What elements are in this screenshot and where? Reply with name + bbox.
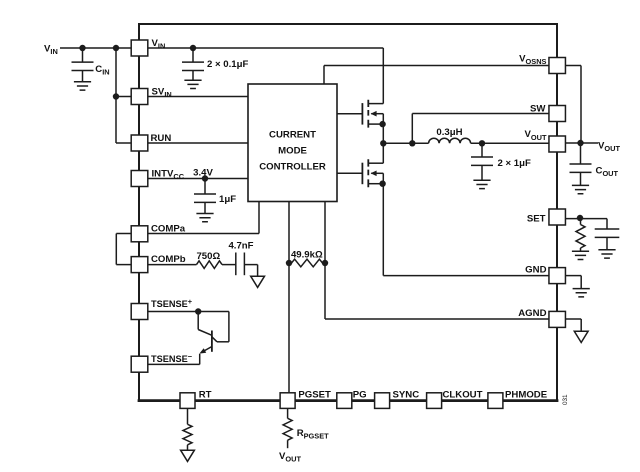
svg-text:RT: RT: [199, 390, 212, 401]
svg-text:TSENSE+: TSENSE+: [151, 297, 193, 309]
svg-text:750Ω: 750Ω: [196, 251, 220, 262]
svg-text:2 × 1μF: 2 × 1μF: [498, 158, 531, 169]
svg-text:COMPa: COMPa: [151, 223, 186, 234]
svg-text:1μF: 1μF: [219, 194, 236, 205]
svg-text:TSENSE−: TSENSE−: [151, 352, 193, 364]
svg-text:PG: PG: [353, 390, 367, 401]
svg-text:SET: SET: [527, 214, 546, 225]
svg-text:MODE: MODE: [278, 145, 307, 156]
svg-text:031: 031: [562, 394, 569, 405]
svg-text:CONTROLLER: CONTROLLER: [259, 161, 326, 172]
svg-text:CLKOUT: CLKOUT: [443, 390, 483, 401]
svg-text:PHMODE: PHMODE: [505, 390, 548, 401]
svg-text:PGSET: PGSET: [298, 390, 331, 401]
svg-text:SW: SW: [530, 103, 546, 114]
svg-text:COMPb: COMPb: [151, 254, 186, 265]
svg-text:0.3μH: 0.3μH: [436, 127, 462, 138]
svg-text:AGND: AGND: [518, 308, 546, 319]
svg-text:SYNC: SYNC: [393, 390, 420, 401]
svg-text:GND: GND: [525, 265, 546, 276]
svg-text:49.9kΩ: 49.9kΩ: [291, 249, 323, 260]
svg-text:CURRENT: CURRENT: [269, 129, 316, 140]
svg-text:RUN: RUN: [151, 133, 172, 144]
svg-text:3.4V: 3.4V: [193, 168, 213, 179]
svg-text:2 × 0.1μF: 2 × 0.1μF: [207, 59, 248, 70]
svg-text:4.7nF: 4.7nF: [228, 241, 253, 252]
